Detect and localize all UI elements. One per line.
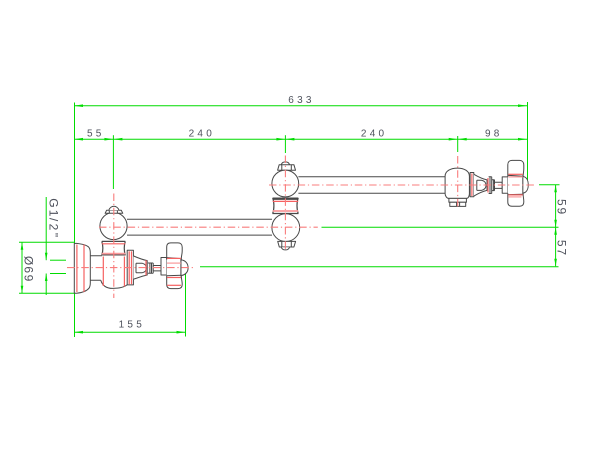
arrow dia69 bottom [21,286,24,294]
extension line handle x=185.5 [185,274,187,337]
svg-text:4: 4 [370,129,376,140]
arrow 59 top [554,185,557,193]
svg-text:9: 9 [22,275,36,282]
arrow 240b left [285,138,294,141]
svg-text:6: 6 [22,266,36,273]
arrow 98 right [518,138,527,141]
G1/2 dimension line lower [45,274,47,296]
right cross handle [508,160,524,206]
svg-text:1: 1 [46,210,60,217]
bonnet ring band (wall valve) [127,250,133,285]
arrow 155 right [177,331,186,334]
middle joint hourglass neck [273,198,299,214]
svg-text:": " [46,233,60,237]
svg-text:6: 6 [288,95,294,106]
svg-text:9: 9 [554,208,568,215]
arrow G12 lower pointing up [45,274,48,282]
svg-text:Ø: Ø [22,256,36,265]
extension line far right x=527 [527,102,529,185]
right stem rings [489,177,495,194]
dimension line 633 [74,105,527,107]
middle joint hex nut top [278,165,296,171]
handle hub [161,258,167,276]
dimension line 155 [74,331,186,333]
right handle hub [502,177,508,193]
svg-text:2: 2 [189,129,195,140]
label 55 [87,129,102,140]
extension line y=227.3 long [322,226,559,228]
label 633 [288,95,312,106]
diameter 69 extension top [19,241,74,243]
svg-text:1: 1 [119,320,125,331]
svg-text:7: 7 [554,248,568,255]
extension line right joint x=457.7 [457,136,459,152]
riser hourglass neck under ball1 [102,241,126,255]
svg-text:8: 8 [494,129,500,140]
svg-text:5: 5 [96,129,102,140]
neck1 red bands [102,243,126,245]
right ring band red [471,174,473,197]
label 240 first [189,129,213,140]
right bonnet crown [474,174,487,196]
svg-text:5: 5 [554,240,568,247]
label 240 second [361,129,385,140]
arrow 240a left [113,138,122,141]
wall flange [74,243,90,293]
right side vertical dimension line x=555.6 [555,185,557,266]
arrow 55 left [74,138,83,141]
extension line y=266.8 long [200,266,559,268]
spout body (right end) [445,168,469,198]
right crown red edge [487,178,489,193]
neck2 red bands [273,200,299,202]
label 57 rotated [554,240,568,256]
right handle hub bands [508,175,523,194]
right valve stem [495,182,503,188]
centerline valve axis horizontal [67,267,195,269]
arrow 59 bottom [554,220,557,228]
svg-text:5: 5 [554,199,568,206]
ball1 top cap [109,206,119,210]
extension line y=184.8 short [539,184,560,186]
G1/2 extension top [50,259,66,261]
diameter 69 extension bottom [19,292,74,294]
centerline arm2 horizontal [269,184,534,186]
centerline middle joint vertical [284,156,286,251]
label 59 rotated [554,199,568,215]
centerline right joint vertical [457,156,459,207]
svg-text:5: 5 [87,129,93,140]
diameter 69 dimension line x=22 [21,242,23,293]
centerline arm1 horizontal [99,226,318,228]
extension line middle joint x=285.4 [284,135,286,153]
spout aerator [450,202,466,206]
svg-text:2: 2 [361,129,367,140]
svg-text:G: G [46,198,60,207]
right ring band [470,173,474,197]
arrow dia69 top [21,242,24,250]
cross handle (side view) [167,243,183,289]
spout outlet plate [449,198,467,202]
svg-text:4: 4 [197,129,203,140]
right handle screw dome [523,175,529,194]
arrow 98 left [458,138,467,141]
handle hub bands [167,258,182,276]
arrow 633 left [74,104,83,107]
right crown inner cup [477,180,486,190]
extension line joint1 x=113.4 [112,135,114,189]
arrow 57 top [554,227,557,235]
G1/2 extension bottom [50,273,66,275]
label G1/2 rotated [46,198,60,237]
arrow G12 upper pointing down [45,253,48,261]
middle joint upper ball [272,170,299,197]
green arrowheads [21,104,557,333]
bonnet crown (wall valve) [133,256,147,279]
arrow 57 bottom [554,259,557,267]
label 155 [119,320,143,331]
arm2 tube [298,177,445,193]
svg-text:2: 2 [46,224,60,231]
crown red edge [145,260,147,275]
bonnet band red edges [128,251,130,284]
handle red bands [167,257,181,259]
svg-text:5: 5 [136,320,142,331]
arrow 240b right [449,138,458,141]
svg-text:9: 9 [485,129,491,140]
flange red edges [76,245,78,293]
stem rings [148,263,153,273]
arm1 tube [127,219,272,235]
middle joint top cap [281,162,289,165]
valve body barrel bottom [101,280,127,288]
extension line left wall x=74 [74,103,76,338]
handle screw dome [181,259,188,276]
arrow 155 left [74,331,83,334]
centerline riser1 vertical [113,194,115,299]
middle joint lower ball [272,214,300,242]
right handle red bands [508,173,523,175]
arrow 240a right [276,138,285,141]
label 98 [485,129,500,140]
G1/2 dimension line upper [45,197,47,260]
ball1 sphere [100,212,127,239]
valve stem [153,266,161,271]
bonnet crown inner cup [136,263,146,272]
svg-text:0: 0 [379,129,385,140]
svg-text:3: 3 [297,95,303,106]
middle joint bottom cap [281,247,289,250]
inlet neck cylinder [90,256,102,281]
middle joint hex nut bottom [278,241,296,247]
label dia69 rotated [22,256,36,282]
dimension line row 55/240/240/98 [74,138,527,140]
ball1 hex nut [105,210,123,213]
svg-text:3: 3 [306,95,312,106]
barrel tangent edges [102,257,104,287]
svg-text:5: 5 [127,320,133,331]
svg-text:0: 0 [206,129,212,140]
arrow 633 right [518,104,527,107]
arrow 55 right [104,138,113,141]
